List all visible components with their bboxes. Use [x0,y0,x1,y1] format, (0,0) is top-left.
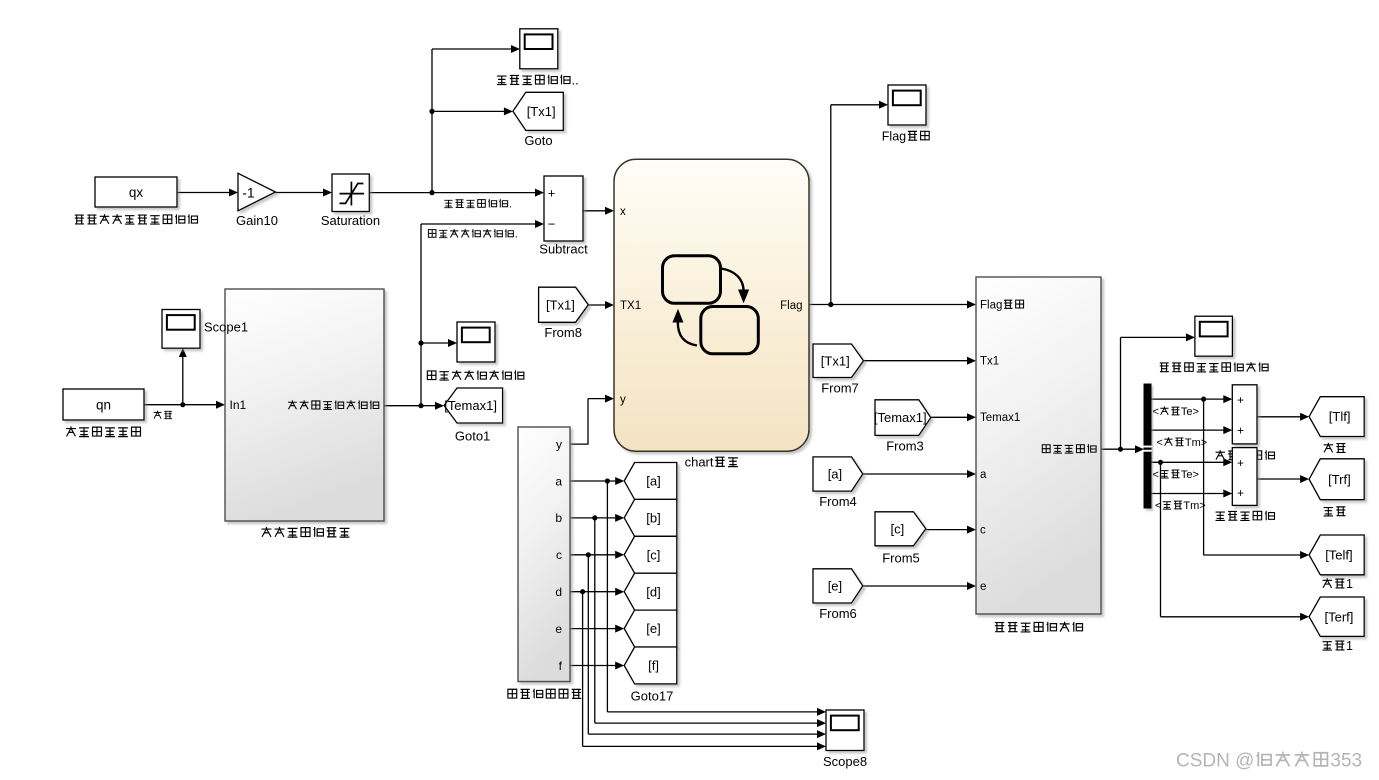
svg-text:e: e [555,622,562,636]
svg-text:-1: -1 [242,184,255,200]
svg-text:..: .. [572,74,579,88]
svg-text:[Temax1]: [Temax1] [874,410,927,425]
svg-text:[a]: [a] [828,467,842,482]
svg-text:[Tx1]: [Tx1] [546,297,575,312]
svg-text:[a]: [a] [646,474,660,489]
svg-text:Saturation: Saturation [321,213,380,228]
svg-text:.: . [509,199,512,211]
svg-text:+: + [1237,393,1244,407]
svg-text:+: + [1237,486,1244,500]
svg-text:[c]: [c] [647,547,661,562]
svg-text:[c]: [c] [891,521,905,536]
svg-text:[f]: [f] [648,658,659,673]
svg-text:e: e [980,581,986,593]
svg-text:−: − [548,216,556,231]
svg-text:x: x [620,206,626,218]
svg-text:<: < [1153,469,1159,481]
svg-text:In1: In1 [230,398,247,412]
svg-text:[Tx1]: [Tx1] [821,353,850,368]
svg-text:Subtract: Subtract [539,242,588,257]
svg-text:qn: qn [96,398,111,413]
svg-text:[Telf]: [Telf] [1325,548,1352,563]
svg-text:qx: qx [129,185,144,200]
svg-text:Flag: Flag [780,300,802,312]
svg-text:Scope1: Scope1 [204,319,248,334]
svg-text:From7: From7 [821,381,859,396]
svg-text:Te>: Te> [1181,469,1199,481]
svg-text:+: + [1237,424,1244,438]
svg-text:353: 353 [1330,751,1362,772]
svg-text:Tm>: Tm> [1183,500,1205,512]
svg-text:y: y [556,437,562,451]
svg-text:+: + [1237,456,1244,470]
svg-text:From4: From4 [819,494,857,509]
svg-text:[Tx1]: [Tx1] [527,104,556,119]
svg-text:Te>: Te> [1181,406,1199,418]
svg-text:From6: From6 [819,606,857,621]
svg-text:+: + [548,185,556,200]
svg-text:[Terf]: [Terf] [1325,609,1354,624]
svg-text:d: d [555,585,562,599]
svg-text:[b]: [b] [646,510,660,525]
svg-text:c: c [556,548,562,562]
svg-text:From3: From3 [886,439,924,454]
svg-text:Goto1: Goto1 [455,429,490,444]
svg-text:a: a [555,474,562,488]
svg-text:1: 1 [1346,577,1353,591]
svg-text:From8: From8 [544,325,582,340]
svg-text:<: < [1153,406,1159,418]
svg-text:TX1: TX1 [620,300,641,312]
svg-text:b: b [555,511,562,525]
svg-text:Tm>: Tm> [1185,437,1207,449]
svg-text:[e]: [e] [828,579,842,594]
svg-text:Goto17: Goto17 [631,689,674,704]
svg-text:[Tlf]: [Tlf] [1329,409,1351,424]
svg-text:Gain10: Gain10 [236,213,278,228]
svg-text:[Temax1]: [Temax1] [444,398,497,413]
svg-text:chart: chart [685,455,714,470]
svg-text:.: . [515,229,518,241]
svg-text:From5: From5 [882,551,920,566]
svg-text:<: < [1157,437,1163,449]
svg-text:Flag: Flag [882,129,906,143]
svg-text:Tx1: Tx1 [980,356,999,368]
svg-text:[Trf]: [Trf] [1328,472,1351,487]
svg-text:CSDN @: CSDN @ [1176,751,1254,772]
svg-text:[d]: [d] [646,584,660,599]
svg-text:[e]: [e] [646,621,660,636]
svg-text:<: < [1155,500,1161,512]
svg-text:Flag: Flag [980,299,1002,311]
svg-text:y: y [620,394,626,406]
svg-text:Scope8: Scope8 [823,754,867,769]
svg-text:Goto: Goto [524,133,552,148]
svg-text:a: a [980,469,987,481]
svg-text:c: c [980,525,986,537]
svg-text:1: 1 [1346,639,1353,653]
svg-text:Temax1: Temax1 [980,412,1020,424]
